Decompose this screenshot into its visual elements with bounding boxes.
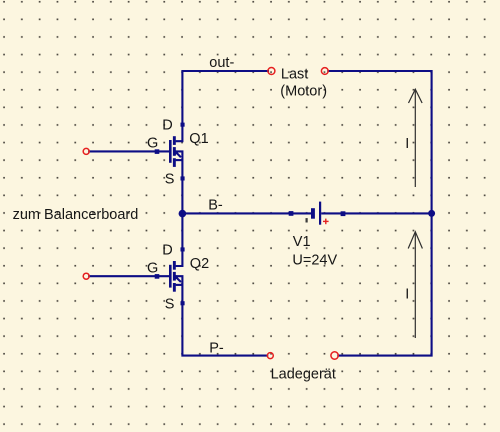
transistor Q2 [147,242,209,312]
battery minus mark [306,218,308,222]
svg-text:I: I [405,136,409,152]
wire top rail left: out- corner [182,71,268,125]
svg-text:S: S [165,172,175,188]
terminal out- left [268,68,275,75]
junction node right rail [428,210,435,217]
battery plus mark [323,219,329,225]
wire B- rail left [182,212,291,214]
terminal Ladegeraet [331,352,338,359]
pin square Q2 source [181,301,185,305]
svg-text:(Motor): (Motor) [280,83,327,99]
pin square Q2 drain [181,247,185,251]
svg-text:G: G [147,136,158,152]
wire Q1 source to node B- [181,178,183,213]
terminal Q2 gate [83,273,89,279]
pin square Q1 source [181,176,185,180]
svg-text:out-: out- [209,55,234,71]
wire node B- to Q2 drain [181,213,183,249]
battery V1 [289,202,346,269]
current arrow I top [409,89,423,187]
pin square battery right [341,211,346,216]
wire top rail right + right rail + bottom rail right [328,71,431,356]
svg-text:Last: Last [281,67,308,83]
pin square Q1 gate [155,149,160,154]
svg-text:Ladegerät: Ladegerät [271,366,336,382]
wire B- rail right [343,212,432,214]
terminal Q1 gate [83,148,89,154]
svg-text:Q1: Q1 [189,131,208,147]
current arrow I bottom [408,232,422,338]
pin square Q1 drain [181,123,185,127]
svg-text:P-: P- [209,340,224,356]
transistor Q1 [147,118,209,188]
svg-text:G: G [147,260,158,276]
pin square Q2 gate [155,274,160,279]
pin square battery left [289,211,294,216]
svg-text:I: I [405,287,409,303]
svg-text:B-: B- [208,198,223,214]
terminal P- [267,353,273,359]
terminal Last right [321,68,328,75]
junction node B- [179,210,187,218]
svg-text:Q2: Q2 [190,256,209,272]
svg-text:V1: V1 [293,234,311,250]
svg-text:U=24V: U=24V [292,253,337,269]
svg-text:zum Balancerboard: zum Balancerboard [13,207,139,223]
wire Q2 gate [89,275,169,277]
wire Q1 gate [89,150,169,152]
svg-text:S: S [165,296,175,312]
svg-text:D: D [162,242,172,258]
svg-text:D: D [162,118,172,134]
wire Q2 source to bottom rail left [182,303,267,355]
